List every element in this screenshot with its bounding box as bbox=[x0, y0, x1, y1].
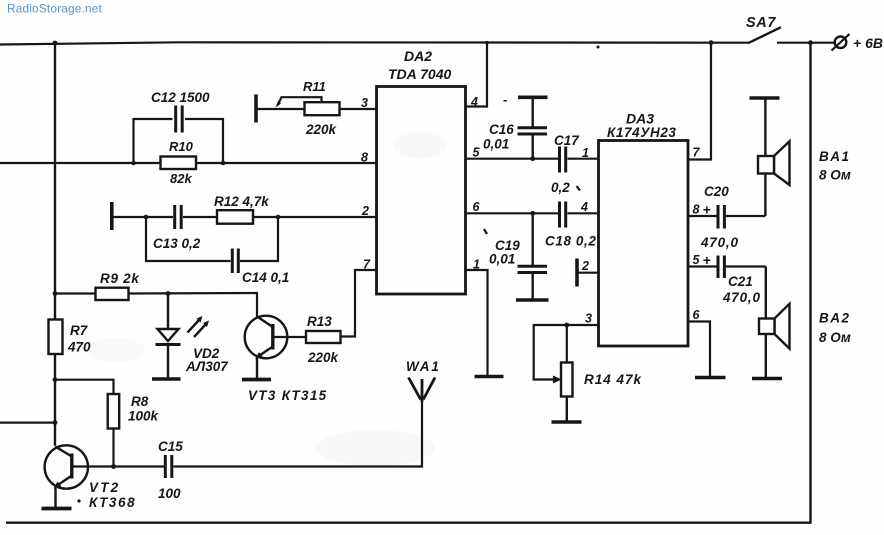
ground under VD2 bbox=[152, 377, 181, 381]
speck near VT2 label bbox=[77, 499, 80, 502]
wire R11 to pin 3 bbox=[340, 108, 377, 110]
wire pin1 DA2 to ground bbox=[466, 270, 488, 375]
svg-text:R14 47k: R14 47k bbox=[584, 372, 643, 387]
svg-text:R10: R10 bbox=[169, 139, 194, 154]
pin 6 DA2 bbox=[473, 200, 481, 214]
pin 5 DA3 bbox=[693, 252, 711, 268]
svg-text:8: 8 bbox=[361, 151, 368, 165]
wire R9 to VT3 collector bbox=[129, 293, 258, 317]
svg-text:R8: R8 bbox=[131, 394, 149, 409]
ground under pin1 DA2 bbox=[475, 375, 504, 379]
pin 4 DA3 bbox=[580, 200, 588, 214]
svg-text:5: 5 bbox=[473, 146, 481, 160]
capacitor C12 bbox=[134, 90, 224, 133]
node rail/left input bbox=[53, 420, 58, 425]
svg-text:3: 3 bbox=[585, 312, 592, 326]
node R8/base wire bbox=[111, 464, 116, 469]
svg-text:100: 100 bbox=[158, 486, 181, 501]
wire R14 bottom bbox=[566, 397, 568, 421]
wire main left vertical rail bbox=[54, 42, 56, 446]
pin 2 DA3 bbox=[581, 259, 589, 273]
wire rail to R9 bbox=[55, 292, 96, 294]
wire pin5 DA2 to C17 bbox=[466, 158, 559, 160]
ground under VT2 bbox=[42, 507, 72, 511]
svg-text:C18 0,2: C18 0,2 bbox=[545, 234, 596, 249]
wire R12 to pin 2 bbox=[253, 216, 377, 218]
svg-text:220k: 220k bbox=[307, 350, 340, 365]
pin 4 DA2 bbox=[470, 95, 478, 109]
svg-text:0,2: 0,2 bbox=[551, 180, 570, 195]
pin 7 DA3 bbox=[693, 146, 701, 160]
wire C14 bypass loop bbox=[146, 217, 278, 261]
ground under C19 bbox=[516, 298, 549, 302]
pin 3 DA3 bbox=[585, 312, 592, 326]
svg-text:4: 4 bbox=[580, 200, 588, 214]
svg-text:BA2: BA2 bbox=[819, 311, 851, 326]
svg-text:К174УН23: К174УН23 bbox=[607, 125, 677, 140]
ground under pin6 DA3 bbox=[695, 376, 726, 380]
svg-text:R9 2k: R9 2k bbox=[100, 271, 140, 286]
svg-text:DA2: DA2 bbox=[404, 48, 432, 64]
svg-text:82k: 82k bbox=[170, 171, 192, 186]
pin 1 DA2 bbox=[473, 258, 480, 272]
wire terminal to R11 bbox=[258, 108, 305, 110]
wire SA7 to +6V terminal bbox=[777, 42, 835, 44]
svg-text:0,01: 0,01 bbox=[483, 137, 509, 152]
pin 7 DA2 bbox=[363, 258, 371, 272]
svg-text:R12 4,7k: R12 4,7k bbox=[214, 194, 270, 209]
svg-text:8 Ом: 8 Ом bbox=[819, 168, 851, 183]
speaker BA2 bbox=[759, 304, 851, 349]
wire rail to R8 bbox=[55, 380, 114, 394]
svg-text:6: 6 bbox=[473, 200, 481, 214]
scan smudges (decorative) bbox=[85, 338, 435, 466]
svg-text:R13: R13 bbox=[307, 314, 332, 329]
ground under BA2 bbox=[752, 377, 782, 381]
terminal input stub (C13) bbox=[110, 202, 114, 230]
svg-text:+ 6В: + 6В bbox=[853, 35, 883, 51]
pin 8 DA3 bbox=[693, 202, 711, 218]
svg-text:3: 3 bbox=[361, 96, 368, 110]
pin 8 DA2 bbox=[361, 151, 368, 165]
svg-text:WA1: WA1 bbox=[406, 359, 441, 374]
svg-text:1: 1 bbox=[582, 146, 589, 160]
node pin3/R14 bbox=[564, 323, 569, 328]
svg-text:C12 1500: C12 1500 bbox=[151, 90, 210, 105]
common bar above BA1 bbox=[750, 96, 780, 100]
svg-text:C13 0,2: C13 0,2 bbox=[153, 236, 201, 251]
ground under R14 bbox=[552, 420, 582, 424]
pin 2 DA2 bbox=[361, 204, 369, 218]
wire input to R10 (pin 8 line) bbox=[0, 162, 377, 164]
svg-text:2: 2 bbox=[361, 204, 369, 218]
node C14 left bbox=[144, 215, 149, 220]
svg-text:6: 6 bbox=[693, 308, 701, 322]
node rail/R9 bbox=[53, 291, 58, 296]
site watermark RadioStorage.net bbox=[7, 2, 103, 16]
svg-text:VT3 КТ315: VT3 КТ315 bbox=[248, 388, 327, 403]
wire pin6 DA3 to ground bbox=[688, 322, 710, 377]
common bar above C16 bbox=[518, 96, 548, 100]
svg-text:C17: C17 bbox=[554, 133, 580, 148]
capacitor C19 bbox=[489, 213, 547, 298]
wire C21 to BA2 bbox=[726, 267, 766, 319]
wire node to R14 top bbox=[566, 325, 568, 363]
svg-text:TDA 7040: TDA 7040 bbox=[388, 66, 452, 82]
wire C17 to pin1 DA3 bbox=[568, 158, 599, 160]
speck near pin6 DA2 bbox=[577, 186, 581, 191]
svg-text:BA1: BA1 bbox=[819, 149, 851, 164]
capacitor C21 bbox=[718, 256, 761, 306]
pin 5 DA2 bbox=[473, 146, 481, 160]
node C12 left bbox=[131, 161, 136, 166]
antenna WA1 bbox=[406, 359, 441, 402]
svg-text:100k: 100k bbox=[128, 409, 160, 424]
speck near C19 bbox=[484, 229, 487, 234]
capacitor C15 bbox=[158, 439, 183, 501]
svg-text:R7: R7 bbox=[70, 323, 89, 338]
svg-text:КТ368: КТ368 bbox=[89, 495, 136, 510]
transistor VT3 КТ315 bbox=[245, 316, 328, 403]
node C12 right bbox=[221, 161, 226, 166]
node rail/right border bbox=[808, 40, 813, 45]
speck on rail bbox=[597, 46, 600, 49]
svg-text:470,0: 470,0 bbox=[722, 290, 761, 305]
resistor R12 bbox=[214, 194, 270, 224]
svg-text:C20: C20 bbox=[704, 184, 729, 199]
svg-text:C15: C15 bbox=[158, 439, 183, 454]
wire C12 bracket right bbox=[222, 118, 224, 163]
speaker BA1 bbox=[758, 141, 851, 185]
resistor R14 (trimmer) bbox=[561, 363, 643, 397]
amplifier IC DA3 К174УН23 bbox=[599, 111, 689, 347]
capacitor C14 bbox=[232, 249, 289, 286]
node VD2 top bbox=[166, 291, 171, 296]
svg-text:7: 7 bbox=[693, 146, 701, 160]
LED VD2 АЛ307 bbox=[156, 294, 230, 378]
node rail/left vertical bbox=[53, 41, 58, 46]
wire bottom border bbox=[6, 522, 812, 524]
wire pin7 DA2 to R13 bbox=[341, 270, 377, 337]
svg-text:220k: 220k bbox=[305, 122, 338, 137]
node pin4 riser/rail bbox=[485, 41, 489, 45]
wire VT2 base to C15 bbox=[72, 465, 164, 467]
svg-text:АЛ307: АЛ307 bbox=[185, 359, 229, 374]
terminal +6V bbox=[832, 34, 883, 51]
svg-text:C16: C16 bbox=[489, 122, 514, 137]
wire pin8 DA3 to C20 bbox=[688, 215, 717, 217]
resistor R8 bbox=[108, 394, 160, 429]
wire VT3 base to R13 bbox=[273, 336, 306, 338]
wire left input lower bbox=[0, 422, 55, 424]
resistor R9 bbox=[96, 271, 141, 300]
wire pin4 DA2 to rail bbox=[466, 43, 488, 107]
wire pin3 DA3 to R14 bbox=[534, 325, 599, 384]
wire pin5 DA3 to C21 bbox=[688, 265, 717, 267]
svg-text:2: 2 bbox=[581, 259, 589, 273]
pin 6 DA3 bbox=[693, 308, 701, 322]
wire C15 to antenna bbox=[174, 402, 423, 467]
wire C18 to pin4 DA3 bbox=[568, 212, 599, 214]
wire R11 wiper arm bbox=[276, 97, 322, 107]
wire terminal to C13 bbox=[114, 216, 174, 218]
resistor R13 bbox=[306, 314, 341, 365]
node C19/pin6 wire bbox=[530, 211, 535, 216]
wire pin6 DA2 to C18 bbox=[466, 212, 559, 214]
transistor VT2 КТ368 bbox=[45, 445, 137, 510]
node C16/pin5 wire bbox=[530, 156, 535, 161]
svg-text:470,0: 470,0 bbox=[700, 235, 739, 250]
op-amp IC DA2 TDA7040 bbox=[377, 48, 466, 294]
svg-text:-: - bbox=[503, 92, 507, 107]
terminal input stub (R11) bbox=[254, 95, 258, 123]
resistor R7 bbox=[49, 320, 92, 355]
resistor R11 bbox=[303, 79, 340, 137]
wire +6V top rail bbox=[0, 42, 749, 44]
capacitor C13 bbox=[153, 205, 201, 251]
capacitor C20 bbox=[700, 184, 739, 250]
pin 1 DA3 bbox=[582, 146, 589, 160]
wire pin7 DA3 to rail bbox=[688, 43, 711, 160]
wire BA2 to ground bbox=[765, 334, 767, 377]
wire R8 bottom bbox=[112, 429, 114, 467]
switch SA7 bbox=[746, 15, 781, 43]
node rail/R8 branch bbox=[53, 377, 58, 382]
node pin7 riser/rail bbox=[709, 40, 714, 45]
svg-text:5: 5 bbox=[693, 253, 701, 267]
wire C12 bracket left bbox=[132, 118, 134, 163]
ground under VT3 bbox=[242, 378, 271, 382]
terminal stub pin2 DA3 bbox=[577, 259, 599, 287]
node C14 right bbox=[276, 215, 281, 220]
svg-text:470: 470 bbox=[67, 340, 91, 355]
capacitor C18 bbox=[545, 202, 596, 249]
capacitor C17 bbox=[551, 133, 580, 195]
svg-text:8: 8 bbox=[693, 203, 700, 217]
resistor R10 bbox=[161, 139, 197, 186]
capacitor C16 bbox=[483, 92, 547, 159]
svg-text:SA7: SA7 bbox=[746, 15, 776, 31]
wire right border bbox=[809, 43, 811, 523]
svg-text:0,01: 0,01 bbox=[489, 252, 515, 267]
wire bar to BA1 bbox=[764, 98, 766, 156]
pin 3 DA2 bbox=[361, 96, 368, 110]
svg-text:C14 0,1: C14 0,1 bbox=[242, 270, 289, 285]
wire C20 to BA1 bbox=[726, 174, 765, 217]
svg-text:R11: R11 bbox=[303, 79, 326, 94]
svg-text:C21: C21 bbox=[728, 274, 753, 289]
svg-text:RadioStorage.net: RadioStorage.net bbox=[7, 2, 103, 16]
svg-text:VT2: VT2 bbox=[89, 480, 120, 495]
wire C13 to R12 bbox=[183, 216, 217, 218]
svg-text:8 Ом: 8 Ом bbox=[819, 330, 851, 345]
